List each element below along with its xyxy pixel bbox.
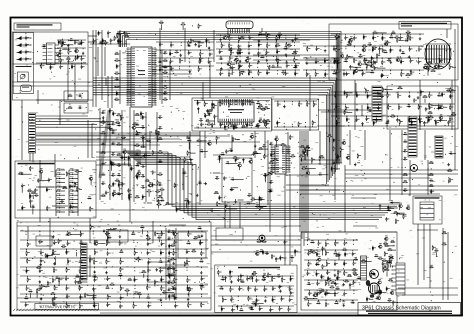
- svg-text:ATTRACTIVE PARTS: ATTRACTIVE PARTS: [40, 305, 75, 309]
